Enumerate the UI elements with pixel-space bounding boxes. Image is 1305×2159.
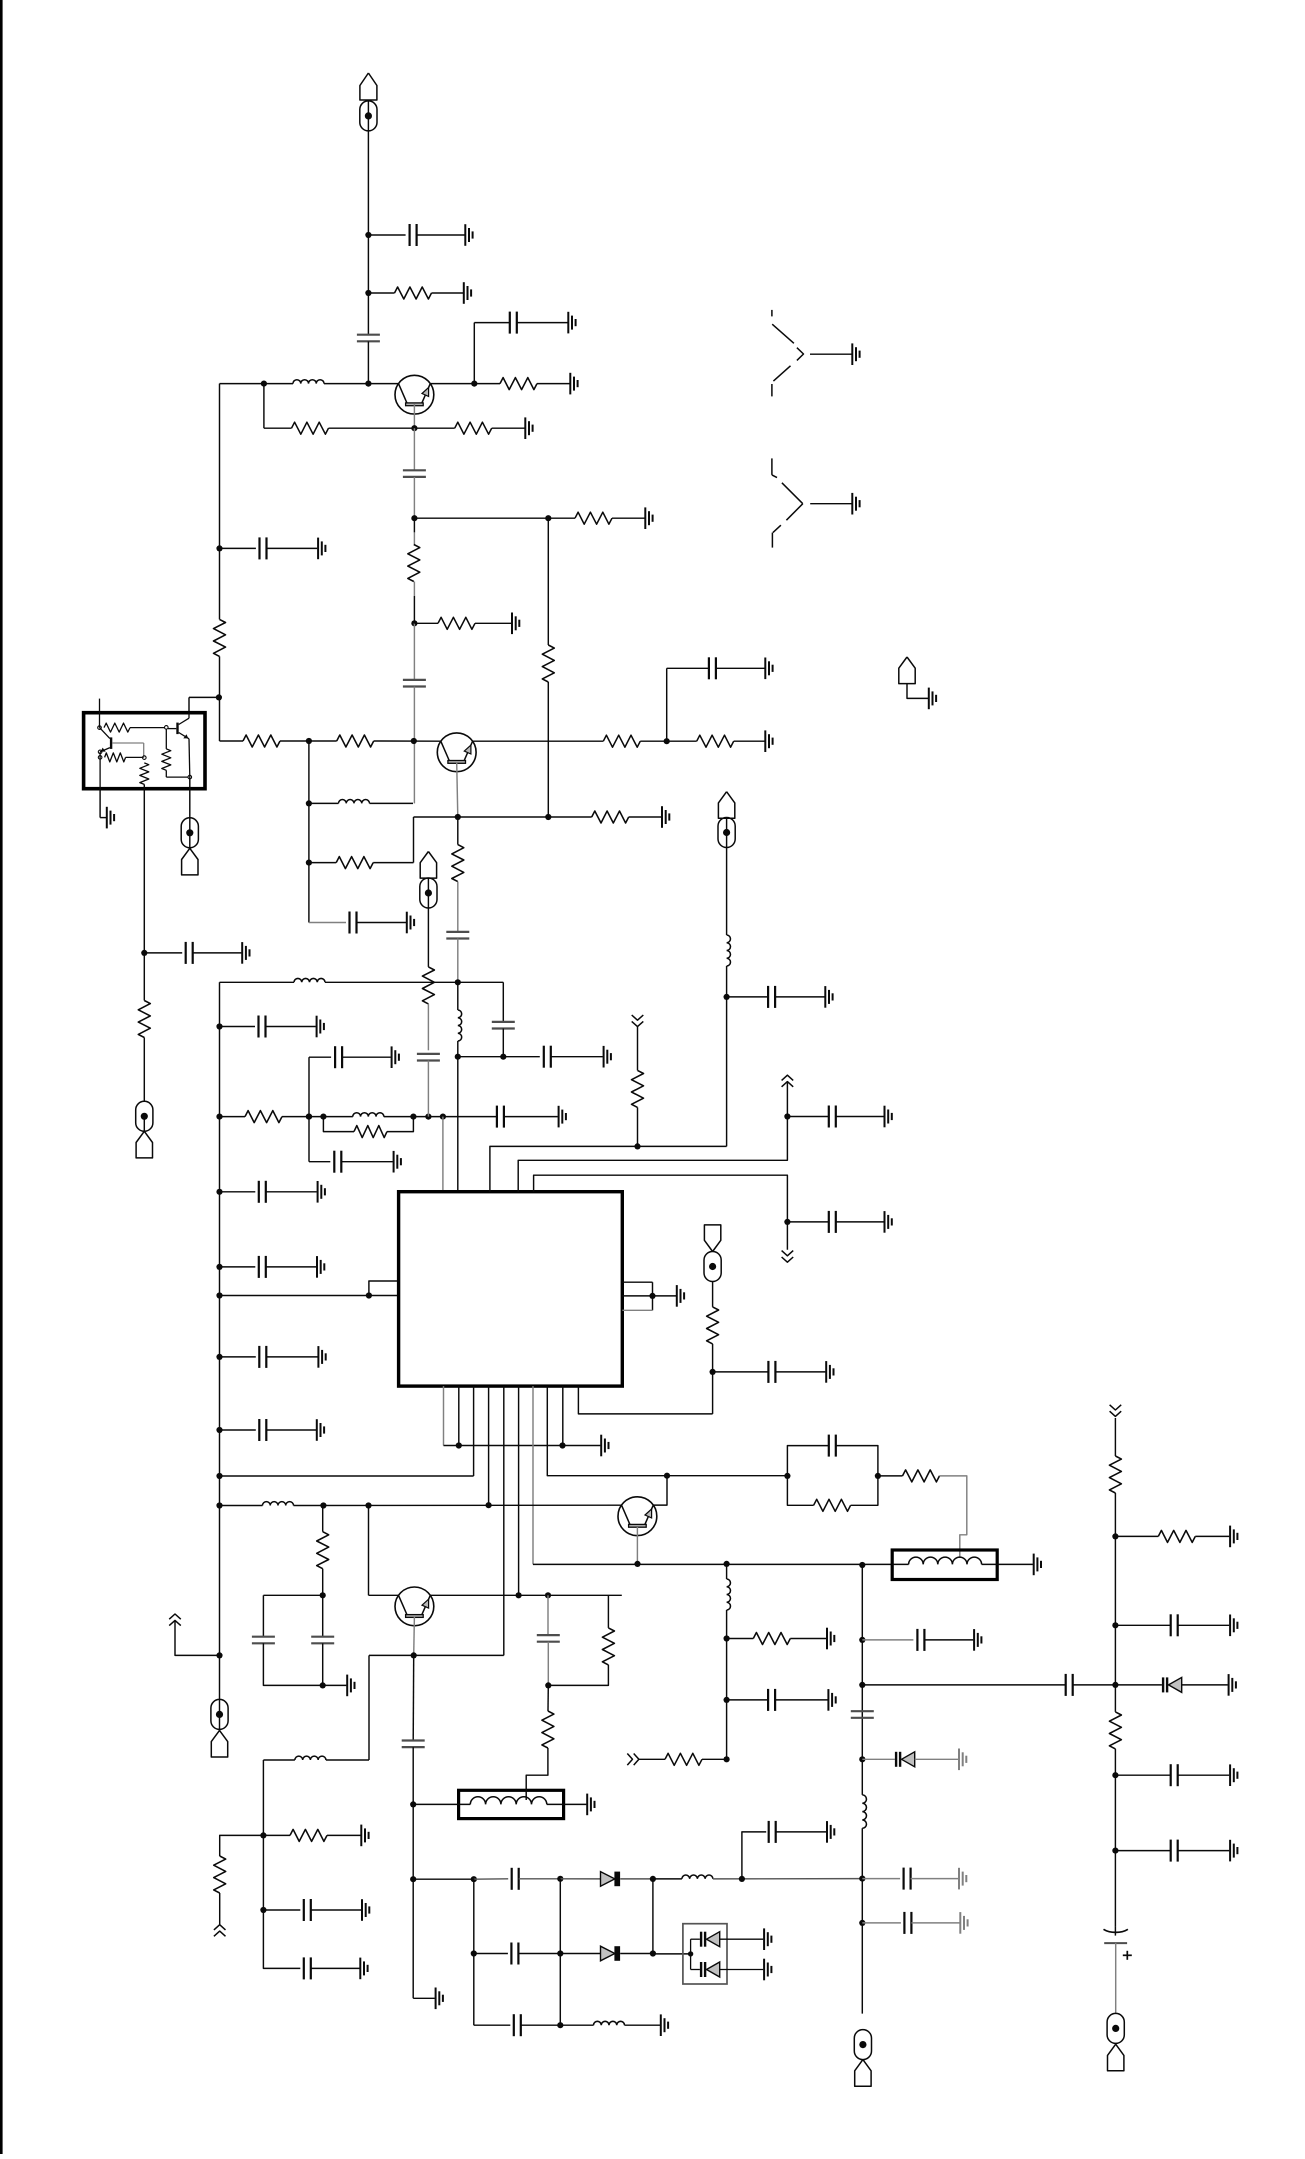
wire bbox=[188, 697, 190, 712]
wire bbox=[263, 1910, 300, 1968]
node bbox=[545, 1682, 551, 1688]
wire IC pin bbox=[369, 1281, 399, 1296]
wire bbox=[413, 428, 415, 470]
varactor D3a bbox=[700, 1932, 702, 1947]
wire bbox=[915, 1758, 959, 1760]
capacitor C32 bbox=[768, 1821, 770, 1843]
node bbox=[411, 738, 417, 744]
node bbox=[859, 1562, 865, 1568]
wire bbox=[1182, 1684, 1228, 1686]
transistor Q2 bbox=[437, 733, 476, 772]
wire bbox=[414, 816, 592, 818]
node bbox=[471, 1876, 477, 1882]
wire bbox=[457, 817, 459, 845]
wire bbox=[907, 683, 928, 698]
wire bbox=[309, 1161, 330, 1163]
wire bbox=[219, 656, 221, 697]
connector J1 pad bbox=[360, 101, 377, 131]
ground bbox=[851, 493, 853, 515]
capacitor C20 bbox=[417, 1053, 440, 1055]
wire bbox=[629, 816, 662, 818]
node bbox=[784, 1113, 790, 1119]
node bbox=[557, 2022, 563, 2028]
ground bbox=[360, 1825, 362, 1847]
ground bbox=[393, 1151, 395, 1173]
ground bbox=[435, 1988, 437, 2010]
wire bbox=[457, 939, 459, 983]
wire bbox=[851, 1476, 878, 1505]
wire bbox=[324, 383, 399, 385]
capacitor C5 bbox=[403, 679, 426, 681]
resistor R8 bbox=[542, 645, 554, 682]
ground bbox=[463, 282, 465, 304]
resistor R30 bbox=[542, 1711, 554, 1748]
node bbox=[724, 1635, 730, 1641]
resistor R13 (internal) bbox=[140, 763, 149, 785]
wire bbox=[413, 817, 415, 863]
capacitor C35 bbox=[916, 1629, 918, 1651]
ground bbox=[644, 507, 646, 529]
wire bbox=[720, 1938, 764, 1940]
ground bbox=[524, 417, 526, 439]
resistor R22 bbox=[354, 1126, 387, 1138]
resistor R32 bbox=[665, 1753, 702, 1765]
wire bbox=[474, 1878, 508, 1880]
node bbox=[455, 979, 461, 985]
ground bbox=[884, 1211, 886, 1233]
capacitor C45 bbox=[185, 942, 187, 964]
resistor R10 (internal) bbox=[104, 723, 130, 732]
varactor D4 bbox=[1162, 1677, 1164, 1692]
wire bbox=[726, 848, 728, 936]
wire bbox=[322, 1595, 324, 1636]
node bbox=[1112, 1622, 1118, 1628]
node antenna feed junction bbox=[365, 381, 371, 387]
wire left column bbox=[219, 384, 221, 620]
wire tap bbox=[940, 1476, 967, 1558]
wire stub bbox=[99, 699, 101, 728]
ground bbox=[959, 1912, 961, 1934]
jack J2 bbox=[771, 310, 773, 317]
transistor Q5 (internal) bbox=[168, 728, 176, 730]
node Q4 base bus bbox=[724, 1561, 730, 1567]
wire bbox=[220, 1505, 263, 1507]
inductor L3 bbox=[458, 1010, 462, 1041]
arrow (off-page) bbox=[782, 1251, 794, 1256]
wire bbox=[327, 1834, 361, 1836]
node bbox=[216, 1023, 222, 1029]
resistor R23 bbox=[422, 967, 434, 1004]
capacitor C14 bbox=[258, 1256, 260, 1278]
wire bbox=[1115, 1850, 1170, 1852]
wire bbox=[262, 1595, 264, 1636]
ground bbox=[241, 942, 243, 964]
wire bbox=[387, 1117, 413, 1132]
ground bbox=[825, 1361, 827, 1383]
node bbox=[1112, 1533, 1118, 1539]
wire bbox=[861, 1828, 863, 2013]
resistor R7 bbox=[438, 617, 475, 629]
wire bbox=[427, 878, 429, 908]
wire IC pin bbox=[503, 1386, 505, 1655]
wire bus bbox=[518, 1082, 787, 1191]
wire bbox=[126, 756, 144, 758]
ground bbox=[660, 2014, 662, 2036]
resistor R18 bbox=[592, 811, 629, 823]
ground bbox=[884, 1106, 886, 1128]
wire bbox=[862, 1684, 1065, 1686]
connector plug bbox=[182, 848, 198, 875]
ground bbox=[1033, 1554, 1035, 1576]
ground bbox=[958, 1749, 960, 1771]
wire bbox=[492, 427, 525, 429]
resistor R15 bbox=[337, 735, 374, 747]
wire bbox=[264, 427, 292, 429]
capacitor C22 bbox=[828, 1106, 830, 1128]
resistor R31 bbox=[753, 1633, 790, 1645]
node bbox=[216, 1292, 222, 1298]
node bbox=[859, 1876, 865, 1882]
capacitor C4 bbox=[403, 469, 426, 471]
ground bbox=[558, 1106, 560, 1128]
wire IC pin bbox=[458, 1386, 460, 1445]
wire bbox=[457, 982, 459, 1010]
connector plug bbox=[136, 1131, 152, 1158]
resistor R9 bbox=[214, 619, 226, 656]
capacitor C6 bbox=[258, 537, 260, 559]
wire bbox=[143, 1116, 145, 1131]
wire bbox=[691, 1938, 700, 1940]
ground bbox=[824, 986, 826, 1008]
capacitor C3 bbox=[509, 312, 511, 334]
wire bbox=[413, 623, 415, 680]
wire IC pin bbox=[220, 1295, 399, 1297]
capacitor C30 bbox=[537, 1634, 560, 1636]
wire bbox=[130, 727, 165, 729]
wire bbox=[457, 882, 459, 932]
node bbox=[1112, 1682, 1118, 1688]
node bbox=[859, 1637, 865, 1643]
wire bbox=[1195, 1535, 1229, 1537]
resistor R12 (internal) bbox=[105, 753, 126, 762]
node combo left bbox=[784, 1473, 790, 1479]
wire bbox=[712, 1281, 714, 1307]
node bbox=[634, 1143, 640, 1149]
node combo right bbox=[875, 1473, 881, 1479]
diode D1 bbox=[601, 1872, 615, 1887]
wire bbox=[458, 1056, 540, 1058]
ground bbox=[586, 1794, 588, 1816]
wire Q3 base bbox=[413, 1616, 416, 1655]
node bbox=[1112, 1848, 1118, 1854]
wire bbox=[309, 862, 336, 864]
capacitor C26 bbox=[311, 1636, 334, 1638]
node bbox=[366, 1292, 372, 1298]
capacitor C33 bbox=[510, 1943, 512, 1965]
wire bbox=[1115, 1535, 1158, 1537]
wire bbox=[548, 517, 575, 519]
node bbox=[320, 1502, 326, 1508]
wire bbox=[220, 1356, 256, 1358]
wire bbox=[263, 1834, 290, 1836]
wire Q1 base bbox=[413, 404, 415, 428]
node bbox=[739, 1876, 745, 1882]
node bbox=[859, 1682, 865, 1688]
wire bbox=[548, 1665, 608, 1686]
wire bbox=[726, 818, 728, 848]
wire bbox=[309, 1056, 331, 1058]
wire bbox=[99, 789, 101, 818]
pin P4 bbox=[188, 775, 192, 779]
wire bbox=[560, 2024, 593, 2026]
capacitor C23 bbox=[828, 1211, 830, 1233]
wire bbox=[1115, 1943, 1117, 2014]
wire bbox=[143, 1038, 145, 1102]
ground bbox=[763, 1959, 765, 1981]
capacitor C39 bbox=[767, 1689, 769, 1711]
resistor R28 bbox=[290, 1829, 327, 1841]
resistor R26 bbox=[317, 1532, 329, 1569]
node bbox=[141, 950, 147, 956]
ground bbox=[511, 613, 513, 635]
node bias feed bbox=[216, 694, 222, 700]
wire bbox=[263, 1909, 300, 1911]
wire bbox=[787, 1476, 813, 1505]
wire bbox=[640, 740, 696, 742]
arrow (off-page) bbox=[782, 1075, 794, 1080]
wire bbox=[810, 503, 851, 505]
transistor Q6 (internal) bbox=[100, 728, 110, 739]
wire bbox=[412, 1747, 414, 1998]
wire bbox=[1114, 1749, 1116, 1926]
resistor R4 bbox=[455, 422, 492, 434]
wire Q2 base bbox=[457, 762, 458, 817]
capacitor C11 bbox=[543, 1046, 545, 1068]
wire IC pin bbox=[622, 1281, 652, 1283]
resistor R37 bbox=[1109, 1712, 1121, 1749]
pin P3 bbox=[98, 750, 102, 754]
node bbox=[859, 1920, 865, 1926]
node bbox=[216, 1114, 222, 1120]
node bbox=[411, 620, 417, 626]
ground bbox=[316, 1016, 318, 1038]
wire bbox=[666, 668, 668, 741]
wire IC pin bbox=[578, 1386, 712, 1414]
wire bbox=[413, 687, 415, 804]
wire bbox=[727, 996, 769, 998]
node bbox=[500, 1054, 506, 1060]
capacitor C16 bbox=[258, 1419, 260, 1441]
wire bbox=[726, 966, 728, 1146]
inductor L10 bbox=[594, 2021, 625, 2025]
bias network box U2 bbox=[84, 713, 205, 789]
wire bbox=[653, 1878, 682, 1880]
wire bbox=[474, 322, 510, 324]
pin P1 bbox=[98, 726, 102, 730]
arrow (off-page) bbox=[169, 1614, 181, 1619]
wire bus bbox=[490, 1146, 727, 1191]
node bbox=[261, 381, 267, 387]
resistor R1 bbox=[395, 287, 432, 299]
wire IC pin bbox=[518, 1386, 520, 1595]
resistor R34 bbox=[903, 1470, 940, 1482]
wire bbox=[1115, 1684, 1162, 1686]
wire bbox=[263, 1759, 295, 1761]
wire bbox=[413, 1116, 497, 1118]
wire bbox=[790, 1638, 826, 1640]
wire bbox=[560, 1953, 600, 1955]
wire bbox=[430, 383, 500, 385]
varactor D3b bbox=[700, 1962, 702, 1977]
capacitor C27 bbox=[303, 1899, 305, 1921]
wire bbox=[836, 1446, 878, 1476]
inductor windings bbox=[470, 1797, 546, 1805]
resistor R35 bbox=[1109, 1456, 1121, 1493]
capacitor C21 bbox=[767, 986, 769, 1008]
capacitor C38 bbox=[903, 1912, 905, 1934]
wire bbox=[309, 802, 339, 804]
node bbox=[650, 1876, 656, 1882]
wire bbox=[165, 729, 167, 749]
capacitor C31 bbox=[511, 1868, 513, 1890]
wire bbox=[308, 1057, 310, 1162]
wire bbox=[413, 1878, 474, 1880]
ground bbox=[391, 1046, 393, 1068]
wire bbox=[457, 1041, 459, 1057]
capacitor C17 bbox=[496, 1106, 498, 1128]
node bbox=[455, 1054, 461, 1060]
inductor L8 bbox=[295, 1756, 326, 1760]
resistor R2 bbox=[500, 378, 537, 390]
resistor R5 bbox=[408, 545, 420, 582]
connector pad bbox=[718, 818, 735, 848]
capacitor C10 bbox=[492, 1021, 515, 1023]
ground bbox=[361, 1899, 363, 1921]
node bbox=[320, 1592, 326, 1598]
node bbox=[306, 800, 312, 806]
wire bbox=[713, 1371, 769, 1373]
ground bbox=[316, 1419, 318, 1441]
wire bbox=[427, 1061, 429, 1117]
wire IC pin bbox=[457, 1057, 459, 1192]
resistor R24 bbox=[632, 1070, 644, 1107]
wire bbox=[413, 596, 415, 623]
jack J3 bbox=[771, 458, 773, 475]
diode D2 bbox=[601, 1946, 615, 1961]
arrow (off-page) bbox=[627, 1754, 632, 1766]
wire bbox=[263, 384, 265, 429]
node bbox=[545, 1592, 551, 1598]
capacitor C24 bbox=[767, 1361, 769, 1383]
ground bbox=[826, 1628, 828, 1650]
wire bbox=[787, 1221, 828, 1223]
wire bbox=[1114, 1926, 1116, 1936]
connector plug (isolated) bbox=[899, 657, 915, 684]
ground bbox=[1229, 1764, 1231, 1786]
capacitor C46 bbox=[902, 1868, 904, 1890]
connector pad bbox=[420, 878, 437, 908]
capacitor C36 bbox=[1065, 1674, 1067, 1696]
wire bbox=[862, 1922, 901, 1924]
capacitor C41 bbox=[1170, 1614, 1172, 1636]
node bbox=[410, 1801, 416, 1807]
shielded inductor T2 bbox=[459, 1790, 564, 1818]
inductor L4 bbox=[294, 978, 325, 982]
wire bbox=[370, 802, 414, 804]
inductor L2 bbox=[339, 800, 370, 804]
resistor R29 bbox=[214, 1856, 226, 1893]
connector plug bbox=[718, 792, 734, 819]
wire bbox=[560, 1878, 600, 1880]
wire bbox=[862, 1639, 913, 1641]
node bbox=[410, 1876, 416, 1882]
node bbox=[306, 738, 312, 744]
wire bbox=[267, 547, 318, 549]
wire bbox=[367, 101, 369, 131]
wire antenna feed bbox=[367, 131, 369, 335]
wire bbox=[323, 1684, 347, 1686]
wire bbox=[720, 1969, 764, 1971]
pin P2 bbox=[165, 726, 169, 730]
wire bbox=[878, 1475, 903, 1477]
ground bbox=[600, 1435, 602, 1457]
connector pad bbox=[854, 2030, 871, 2060]
wire bbox=[262, 1760, 264, 1835]
ground bbox=[406, 912, 408, 934]
node bbox=[216, 1473, 222, 1479]
wire bbox=[99, 752, 101, 789]
wire bbox=[189, 696, 219, 698]
capacitor C12 bbox=[257, 1016, 259, 1038]
wire bbox=[413, 1803, 470, 1805]
node bbox=[557, 1876, 563, 1882]
wire bbox=[220, 1835, 264, 1856]
wire bbox=[219, 1699, 221, 1730]
node bbox=[306, 860, 312, 866]
wire IC pin bbox=[488, 1386, 490, 1505]
wire bbox=[414, 622, 438, 624]
connector J1 plug (antenna) bbox=[360, 73, 377, 100]
inductor L7 bbox=[263, 1502, 294, 1506]
ground bbox=[826, 1821, 828, 1843]
node bbox=[634, 1561, 640, 1567]
ground bbox=[928, 688, 930, 710]
varactor pair box D3 bbox=[683, 1924, 727, 1984]
wire bbox=[220, 1429, 256, 1431]
wire bbox=[175, 1621, 220, 1656]
node bbox=[545, 814, 551, 820]
wire bbox=[892, 1563, 908, 1565]
wire bbox=[787, 1446, 828, 1476]
ground bbox=[764, 730, 766, 752]
capacitor C9 bbox=[446, 931, 469, 933]
wire bbox=[473, 1879, 475, 2025]
wire bbox=[653, 1476, 667, 1505]
resistor R33 bbox=[814, 1499, 851, 1511]
wire bbox=[1073, 1684, 1116, 1686]
wire bbox=[458, 981, 504, 983]
wire IC pin bbox=[562, 1386, 564, 1445]
wire IC pin bbox=[622, 1309, 652, 1311]
wire bbox=[1115, 1624, 1170, 1626]
wire bbox=[413, 518, 415, 532]
wire bbox=[368, 1506, 370, 1596]
wire bbox=[367, 341, 369, 383]
wire bus bbox=[533, 1563, 892, 1565]
wire bbox=[144, 952, 182, 954]
IC U1 bbox=[399, 1192, 623, 1386]
wire IC pin bbox=[622, 1295, 652, 1297]
